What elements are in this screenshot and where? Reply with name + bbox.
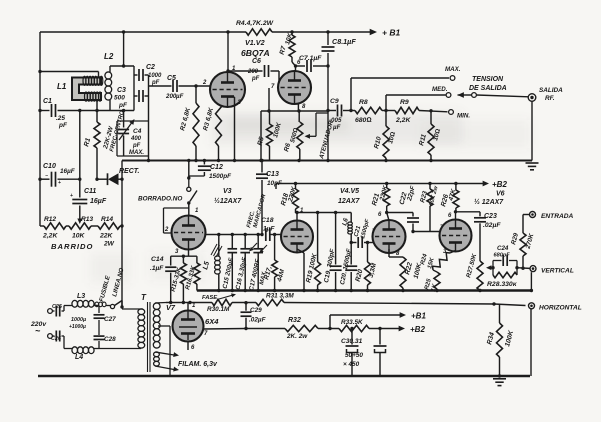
resistor R10 bbox=[373, 111, 397, 163]
svg-text:pF: pF bbox=[118, 102, 128, 109]
svg-text:R31 3,3M: R31 3,3M bbox=[266, 293, 294, 300]
wire filter bottom out bbox=[99, 348, 141, 350]
transformer center tap bbox=[158, 326, 170, 376]
svg-text:R14: R14 bbox=[101, 216, 113, 223]
transformer filament winding bbox=[154, 352, 179, 372]
resistor R32 bbox=[285, 317, 318, 340]
capacitor C5 bbox=[149, 75, 211, 100]
svg-text:C6: C6 bbox=[252, 58, 261, 65]
wire MAX tap bbox=[351, 66, 461, 111]
svg-text:C3: C3 bbox=[117, 87, 126, 94]
resistor R8 bbox=[355, 99, 382, 124]
resistor R13 bbox=[66, 216, 93, 240]
wire hv rail bbox=[122, 159, 532, 162]
svg-text:1000: 1000 bbox=[148, 73, 162, 79]
svg-text:+: + bbox=[58, 180, 61, 186]
inductor L3 bbox=[64, 293, 99, 307]
capacitor C10 bbox=[38, 163, 80, 187]
resistor R5 bbox=[257, 111, 283, 161]
svg-text:+B2: +B2 bbox=[410, 325, 425, 334]
svg-text:½12AX7: ½12AX7 bbox=[214, 197, 242, 205]
svg-text:2,2K: 2,2K bbox=[395, 117, 411, 124]
ground bottom bbox=[493, 379, 506, 386]
svg-text:V4.V5: V4.V5 bbox=[340, 188, 359, 195]
resistor R6 bbox=[283, 104, 303, 161]
tube V2 bbox=[271, 60, 311, 110]
svg-text:R13: R13 bbox=[81, 216, 93, 223]
svg-text:pF: pF bbox=[58, 122, 68, 129]
label BORRADO.NO bbox=[138, 196, 182, 203]
capacitor C26 bbox=[51, 331, 64, 349]
svg-text:R32: R32 bbox=[288, 317, 301, 324]
svg-text:C30.31: C30.31 bbox=[341, 338, 363, 345]
svg-text:R8: R8 bbox=[359, 99, 368, 106]
svg-text:22K: 22K bbox=[99, 233, 114, 240]
svg-text:R4.4,7K.2W: R4.4,7K.2W bbox=[236, 20, 274, 27]
svg-text:V3: V3 bbox=[223, 188, 232, 195]
resistor R26 bbox=[440, 182, 459, 214]
capacitor C2 bbox=[134, 64, 162, 86]
svg-text:16µF: 16µF bbox=[90, 198, 107, 205]
svg-text:.02µF: .02µF bbox=[249, 317, 267, 324]
svg-text:L4: L4 bbox=[75, 354, 83, 361]
label +B2 V6 bbox=[474, 180, 507, 206]
wire V7 bottom stem bbox=[187, 341, 189, 351]
svg-text:C8.1µF: C8.1µF bbox=[332, 37, 356, 46]
label FILAM 6,3V bbox=[178, 361, 218, 368]
svg-text:TENSION: TENSION bbox=[472, 76, 504, 83]
svg-text:16µF: 16µF bbox=[60, 168, 76, 175]
wire V1 plate stem bbox=[227, 32, 229, 73]
wire mains vertical bbox=[120, 161, 123, 308]
resistor R16 bbox=[184, 256, 200, 290]
wire V7 plate stem bbox=[187, 303, 189, 312]
inductor L5 bbox=[202, 235, 222, 291]
svg-text:C1: C1 bbox=[43, 98, 52, 105]
wire bottom rail bbox=[38, 375, 530, 378]
label FREC-CENTRO bbox=[109, 110, 126, 153]
capacitor C28 bbox=[94, 331, 117, 349]
svg-text:HORIZONTAL: HORIZONTAL bbox=[539, 305, 582, 312]
resistor R29 bbox=[510, 215, 535, 270]
capacitor C4 bbox=[118, 111, 144, 157]
label ATENUADOR bbox=[318, 119, 335, 160]
wire V3 plate line bbox=[205, 233, 276, 236]
wire V3 cathode bbox=[171, 249, 197, 258]
svg-text:C18: C18 bbox=[261, 217, 274, 224]
switch LINEA bbox=[110, 301, 122, 309]
svg-text:C13: C13 bbox=[266, 171, 279, 178]
wire B junction bbox=[318, 315, 339, 330]
svg-text:pF: pF bbox=[251, 76, 260, 82]
svg-text:1500pF: 1500pF bbox=[209, 173, 232, 180]
label FREC MARCADOR bbox=[246, 193, 267, 229]
capacitor C20 bbox=[339, 234, 357, 291]
inductor L2 tank bbox=[104, 52, 134, 112]
wire V6 plate line bbox=[456, 211, 481, 213]
diode RECT bbox=[95, 168, 139, 185]
capacitor C22 bbox=[399, 184, 419, 233]
terminal SALIDA RF bbox=[528, 87, 563, 102]
capacitor C19 bbox=[323, 213, 342, 291]
capacitor C31 bbox=[374, 327, 387, 376]
resistor R1 bbox=[83, 111, 115, 180]
resistor R3 bbox=[202, 99, 221, 161]
capacitor C11 bbox=[70, 179, 107, 224]
wire salida arrow bbox=[458, 92, 529, 98]
svg-text:C10: C10 bbox=[43, 163, 56, 170]
svg-text:680pF: 680pF bbox=[494, 253, 511, 259]
label 6BQ7A bbox=[241, 48, 270, 58]
svg-text:C7.1µF: C7.1µF bbox=[299, 55, 322, 62]
resistor R2 bbox=[179, 84, 199, 160]
terminal ENTRADA bbox=[530, 212, 574, 221]
transformer T core bbox=[141, 293, 150, 372]
svg-text:C5: C5 bbox=[167, 75, 176, 82]
svg-text:.1µF: .1µF bbox=[150, 265, 164, 272]
svg-text:½ 12AX7: ½ 12AX7 bbox=[474, 198, 504, 206]
svg-text:C12: C12 bbox=[210, 164, 223, 171]
svg-text:R9: R9 bbox=[400, 99, 409, 106]
svg-text:L1: L1 bbox=[57, 82, 67, 91]
resistor R22 bbox=[389, 249, 424, 291]
svg-text:FASE: FASE bbox=[202, 295, 218, 301]
svg-text:R30.1M: R30.1M bbox=[207, 306, 230, 313]
inductor L4 bbox=[64, 347, 99, 361]
svg-text:200: 200 bbox=[247, 69, 259, 75]
wire V1 cathode bbox=[228, 97, 237, 162]
label C30.31 bbox=[341, 338, 363, 368]
wire +B2 feed bbox=[369, 325, 425, 334]
resistor R18 bbox=[280, 182, 299, 214]
tube V4 bbox=[281, 208, 313, 253]
resistor R27 bbox=[465, 253, 483, 291]
resistor R21 bbox=[371, 182, 390, 214]
capacitor C18 bbox=[261, 217, 281, 241]
capacitor C24 bbox=[493, 245, 517, 268]
svg-text:6X4: 6X4 bbox=[205, 317, 219, 326]
svg-text:2: 2 bbox=[164, 227, 169, 233]
wire fase line bbox=[166, 301, 526, 306]
capacitor C23 bbox=[474, 212, 501, 261]
svg-text:C25: C25 bbox=[52, 304, 63, 310]
label V1.V2 bbox=[245, 38, 265, 47]
capacitor C30 bbox=[346, 327, 359, 376]
capacitor C21 bbox=[351, 218, 373, 248]
capacitor C16 bbox=[235, 235, 250, 291]
wire L1 bottom lead bbox=[96, 101, 98, 111]
capacitor C29 bbox=[241, 303, 267, 329]
svg-text:µF: µF bbox=[175, 93, 184, 100]
svg-text:50+50: 50+50 bbox=[345, 352, 363, 359]
wire MIN tap bbox=[419, 109, 470, 119]
svg-text:DE SALIDA: DE SALIDA bbox=[469, 85, 507, 92]
capacitor C12 bbox=[189, 161, 232, 181]
svg-text:2K. 2w: 2K. 2w bbox=[286, 333, 308, 340]
svg-text:2W: 2W bbox=[103, 241, 115, 248]
svg-text:C26: C26 bbox=[51, 336, 62, 342]
resistor R19 bbox=[305, 213, 320, 291]
svg-text:10K: 10K bbox=[72, 233, 86, 240]
resistor R34 bbox=[486, 304, 515, 377]
resistor R23 bbox=[419, 182, 440, 232]
tube V3 bbox=[164, 208, 206, 255]
svg-text:+ B1: + B1 bbox=[382, 28, 400, 38]
svg-text:680Ω: 680Ω bbox=[355, 117, 372, 124]
transformer primary bbox=[120, 305, 144, 348]
svg-text:C14: C14 bbox=[151, 256, 164, 263]
svg-text:× 450: × 450 bbox=[343, 361, 360, 368]
svg-text:L3: L3 bbox=[77, 293, 85, 300]
resistor R17 bbox=[263, 235, 286, 291]
resistor R11 bbox=[418, 111, 442, 162]
svg-text:R28.330κ: R28.330κ bbox=[487, 281, 518, 288]
wire L2 drop bbox=[123, 32, 125, 66]
transformer secondary bbox=[153, 303, 166, 349]
svg-text:VERTICAL: VERTICAL bbox=[541, 268, 574, 275]
svg-text:µF: µF bbox=[332, 124, 341, 131]
wire V7 cathode lead bbox=[203, 327, 285, 330]
wire V4 cathode bbox=[297, 249, 304, 291]
resistor R25 bbox=[424, 272, 440, 293]
resistor R31 bbox=[256, 293, 294, 306]
wire V5 plate link bbox=[387, 212, 413, 214]
svg-text:FILAM. 6,3v: FILAM. 6,3v bbox=[178, 361, 218, 368]
wire grid bus bbox=[259, 88, 327, 162]
resistor R15 bbox=[170, 256, 187, 302]
resistor R14 bbox=[91, 216, 122, 248]
wire R27 wiper bbox=[486, 265, 495, 270]
wire V3 grid loop bbox=[164, 203, 189, 233]
svg-text:C27: C27 bbox=[104, 316, 116, 323]
wire C2C3 drop bbox=[147, 75, 150, 162]
svg-text:~: ~ bbox=[35, 326, 41, 336]
capacitor C17 bbox=[248, 235, 268, 292]
terminal 220v bottom bbox=[48, 334, 53, 339]
capacitor C14 bbox=[150, 256, 176, 303]
svg-text:R33.5K: R33.5K bbox=[341, 319, 363, 326]
label +B1 bbox=[382, 28, 400, 38]
wire +B1 feed bbox=[330, 312, 426, 321]
capacitor C7 bbox=[296, 55, 330, 72]
capacitor C3 bbox=[114, 87, 149, 109]
wire L1 top lead bbox=[38, 70, 98, 78]
wire +B2 rail bbox=[276, 181, 489, 189]
tube V1 bbox=[202, 66, 245, 107]
svg-text:−: − bbox=[45, 173, 48, 179]
tube V6 bbox=[440, 212, 472, 255]
capacitor C1 bbox=[38, 98, 110, 129]
wire vertical out bbox=[517, 267, 530, 270]
svg-text:MED.: MED. bbox=[432, 86, 448, 93]
svg-text:6BQ7A: 6BQ7A bbox=[241, 48, 270, 58]
svg-text:+: + bbox=[70, 193, 73, 199]
inductor L1 bbox=[57, 76, 103, 101]
svg-text:1000µ: 1000µ bbox=[71, 317, 86, 323]
resistor R9 bbox=[382, 99, 419, 124]
inductor L6 bbox=[341, 213, 352, 235]
svg-text:C2: C2 bbox=[146, 64, 155, 71]
svg-text:C28: C28 bbox=[104, 336, 116, 343]
svg-text:ENTRADA: ENTRADA bbox=[541, 213, 573, 220]
label V3 bbox=[214, 188, 242, 205]
svg-text:pF: pF bbox=[132, 143, 141, 149]
svg-text:L2: L2 bbox=[104, 52, 114, 61]
svg-text:2,2K: 2,2K bbox=[42, 233, 58, 240]
wire salida ground drop bbox=[531, 101, 533, 161]
svg-text:MAX.: MAX. bbox=[129, 150, 144, 156]
label LINEA.NO bbox=[111, 267, 125, 298]
svg-text:+B2: +B2 bbox=[492, 180, 507, 189]
svg-text:.02µF: .02µF bbox=[483, 222, 501, 229]
label V4.V5 12AX7 bbox=[338, 188, 361, 205]
resistor R30 bbox=[207, 299, 232, 313]
wire horizontal terminal drop bbox=[530, 309, 532, 376]
terminal HORIZONTAL bbox=[529, 303, 582, 312]
svg-text:500: 500 bbox=[114, 95, 125, 102]
capacitor C4 box bbox=[117, 121, 149, 161]
tube V5 bbox=[372, 212, 406, 257]
fuse bbox=[95, 302, 110, 307]
svg-text:12AX7: 12AX7 bbox=[338, 198, 361, 205]
svg-text:+1000µ: +1000µ bbox=[69, 324, 86, 330]
capacitor C6 bbox=[226, 58, 279, 82]
label 1000uF bbox=[69, 317, 86, 330]
capacitor C15 bbox=[222, 235, 237, 291]
terminal 220v top bbox=[30, 309, 52, 336]
svg-text:pF: pF bbox=[151, 80, 160, 86]
svg-text:RF.: RF. bbox=[545, 95, 555, 102]
resistor R24 bbox=[420, 251, 455, 273]
background smudges bbox=[90, 112, 530, 283]
svg-text:SALIDA: SALIDA bbox=[539, 87, 563, 94]
svg-text:1µF: 1µF bbox=[263, 226, 275, 233]
svg-text:·005: ·005 bbox=[329, 117, 342, 124]
svg-text:C9: C9 bbox=[330, 98, 339, 105]
capacitor C8 bbox=[322, 32, 357, 162]
svg-text:C23: C23 bbox=[484, 213, 497, 220]
wire +B1 rail bbox=[40, 29, 377, 36]
svg-text:C24: C24 bbox=[497, 245, 509, 252]
wire V6 grid bbox=[413, 225, 444, 232]
resistor R33 bbox=[339, 319, 369, 332]
wire lower rail bbox=[197, 272, 533, 292]
svg-text:C29: C29 bbox=[250, 307, 262, 314]
label FUSIBLE bbox=[98, 274, 112, 302]
svg-text:R12: R12 bbox=[44, 216, 56, 223]
svg-text:BARRIDO: BARRIDO bbox=[51, 242, 93, 251]
capacitor C27 bbox=[94, 306, 117, 332]
wire V4 plate line bbox=[297, 211, 351, 214]
resistor R28 bbox=[487, 266, 519, 288]
capacitor C25 bbox=[52, 304, 64, 317]
wire c1 c10 link bbox=[78, 111, 81, 181]
terminal VERTICAL bbox=[530, 266, 574, 275]
svg-text:BORRADO.NO: BORRADO.NO bbox=[138, 196, 182, 203]
wire left rail bbox=[39, 32, 41, 226]
tube V7 bbox=[166, 303, 219, 351]
resistor R7 bbox=[279, 32, 298, 72]
capacitor C9 bbox=[326, 98, 355, 131]
label BARRIDO bbox=[51, 242, 93, 251]
svg-text:MIN.: MIN. bbox=[457, 113, 470, 120]
svg-text:V6: V6 bbox=[496, 191, 505, 198]
svg-text:V1.V2: V1.V2 bbox=[245, 38, 265, 47]
label TENSION DE SALIDA bbox=[469, 76, 507, 92]
svg-text:MAX.: MAX. bbox=[445, 66, 461, 73]
capacitor C13 bbox=[256, 161, 283, 235]
svg-text:2: 2 bbox=[202, 80, 207, 86]
switch BORRADO bbox=[187, 161, 197, 205]
svg-text:V7: V7 bbox=[166, 303, 176, 312]
svg-text:C4: C4 bbox=[133, 128, 142, 135]
label FASE bbox=[202, 293, 236, 301]
svg-text:C11: C11 bbox=[84, 188, 96, 195]
wire R6 wiper bbox=[305, 113, 328, 139]
ground top right bbox=[526, 163, 539, 170]
resistor R4 bbox=[236, 20, 274, 35]
resistor R20 bbox=[355, 243, 378, 291]
svg-text:400: 400 bbox=[130, 136, 142, 142]
resistor R12 bbox=[40, 216, 66, 240]
svg-text:.25: .25 bbox=[56, 115, 65, 122]
wire MED tap bbox=[384, 86, 451, 112]
svg-text:+B1: +B1 bbox=[411, 312, 426, 321]
